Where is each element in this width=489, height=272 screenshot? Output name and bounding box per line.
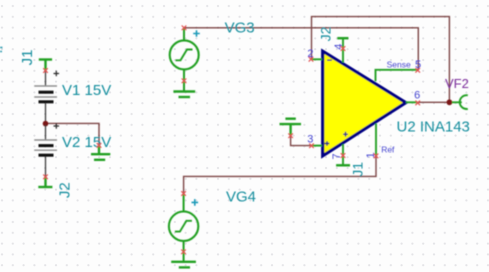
svg-text:J1: J1 [349, 162, 365, 177]
pin 6 output stub [406, 101, 418, 103]
output node dot VF2 [447, 99, 453, 105]
connection x mark U2 pin 6 [415, 101, 420, 106]
wire output pin 6 to node [418, 101, 450, 103]
pin 4 stub and terminal [337, 38, 348, 62]
connection x mark U2 pin 1 [374, 154, 379, 159]
wire VG4 output to Ref pin 1 [184, 156, 376, 194]
connection x mark VG4 plus terminal [181, 191, 186, 196]
voltage generator VG4 [169, 194, 198, 262]
svg-text:Ref: Ref [381, 144, 395, 154]
svg-text:U2 INA143: U2 INA143 [397, 119, 470, 136]
minus mark pin 2 [327, 59, 332, 61]
terminal J2 [38, 177, 52, 187]
voltage generator VG3 [170, 28, 199, 92]
node junction dot [43, 121, 49, 127]
inverted ground to pin 3 [280, 119, 302, 136]
svg-text:V2 15V: V2 15V [62, 134, 111, 151]
connection x mark U2 pin 7 [341, 153, 346, 158]
connection x mark terminal J1 [43, 68, 48, 73]
svg-text:J1: J1 [19, 49, 36, 65]
wire feedback output node to pin 2 [312, 17, 450, 103]
ground below VG3 [173, 92, 195, 98]
connection x mark U2 pin 5 [415, 68, 420, 73]
connection x mark VG4 minus terminal [181, 250, 186, 255]
connection x mark VG3 minus terminal [182, 79, 187, 84]
pin 7 stub and terminal [336, 144, 350, 165]
pin 1 Ref stub [375, 124, 377, 156]
connection x mark ground near V2 [97, 143, 102, 148]
pin 3 stub [312, 145, 323, 147]
plus mark pin 3 [325, 141, 330, 146]
svg-text:6: 6 [414, 89, 420, 101]
svg-text:Sense: Sense [387, 59, 411, 69]
battery V2 [34, 123, 59, 177]
connection x mark inverted ground [288, 133, 293, 138]
plus mark supply [343, 132, 348, 137]
terminal J1 [39, 60, 52, 71]
pin 2 stub [312, 58, 323, 60]
svg-text:VF2: VF2 [445, 76, 469, 91]
wire battery midpoint to ground [46, 123, 100, 145]
VG3 plus mark [193, 30, 200, 37]
connection x mark terminal J2 [43, 175, 48, 180]
connection x mark U2 pin 3 [309, 143, 314, 148]
ground below VG4 [171, 262, 196, 268]
wire inverted ground to pin 3 [291, 136, 312, 146]
svg-text:V1 15V: V1 15V [62, 82, 111, 99]
wire VG3 output to Sense pin 5 [184, 28, 418, 71]
svg-text:J2: J2 [318, 26, 334, 41]
connection x mark U2 pin 4 [341, 46, 346, 51]
battery V1 [34, 71, 59, 122]
svg-text:3: 3 [307, 133, 313, 145]
VG4 plus mark [192, 199, 199, 206]
svg-text:VG3: VG3 [225, 19, 255, 36]
svg-text:J2: J2 [56, 182, 73, 198]
ground near V2 [91, 145, 110, 159]
svg-text:VG4: VG4 [226, 189, 256, 206]
connection x mark VG3 plus terminal [182, 26, 187, 31]
connection x mark U2 pin 2 [309, 57, 314, 62]
op-amp U2 triangle [323, 51, 406, 156]
voltage probe VF2 [452, 95, 468, 109]
pin 5 Sense stub [376, 70, 418, 82]
stray mark at canvas left edge [0, 48, 3, 52]
